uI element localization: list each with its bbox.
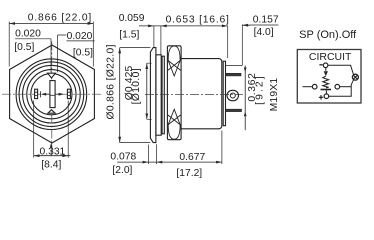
right centerline arrow: [55, 93, 61, 95]
terminal pin B bottom: [226, 109, 242, 111]
svg-text:0.020: 0.020: [15, 29, 41, 40]
down triangle above slot: [48, 73, 56, 78]
svg-text:M19X1: M19X1: [269, 78, 280, 112]
bezel inner circle 3: [23, 65, 81, 123]
side view washer: [162, 56, 164, 134]
actuator slot rectangle: [50, 81, 55, 108]
LED plus terminal circle: [324, 94, 329, 99]
side view flange: [150, 48, 156, 143]
dim 0.362 line: [244, 66, 246, 131]
svg-text:0.020: 0.020: [67, 31, 93, 42]
nut bottom chamfer cross lines: [167, 115, 181, 125]
switch right lead wire: [340, 86, 352, 88]
plus label: [319, 95, 323, 99]
dim 0.866 extension lines: [9, 22, 93, 67]
lamp circle: [352, 74, 358, 80]
wire bar to plus circle: [325, 90, 327, 94]
terminal oval with hole: [227, 90, 239, 100]
svg-text:0.331: 0.331: [40, 146, 66, 157]
terminal pin A top: [226, 73, 242, 76]
dim 0.157 extension line: [241, 25, 243, 66]
svg-text:SP (On).Off: SP (On).Off: [299, 29, 357, 41]
LED cathode bar: [321, 89, 332, 91]
nut top chamfer cross lines: [167, 61, 181, 71]
dim 0.653 right extension: [227, 26, 229, 58]
svg-text:CIRCUIT: CIRCUIT: [309, 51, 352, 63]
dim 0.078/0.677 line: [117, 161, 222, 163]
side view centerline: [145, 94, 243, 96]
svg-text:[Ø10.0]: [Ø10.0]: [131, 68, 142, 104]
LED minus terminal circle: [323, 63, 328, 68]
terminal thin line top: [226, 65, 243, 67]
side view body: [181, 59, 222, 129]
svg-text:0.866 [22.0]: 0.866 [22.0]: [28, 13, 92, 24]
up triangle below slot: [48, 110, 55, 113]
switch left lead: [303, 86, 313, 88]
switch left contact circle: [312, 84, 317, 89]
svg-text:[8.4]: [8.4]: [41, 160, 61, 171]
dim 0.157 leader: [242, 24, 278, 26]
minus label: [319, 64, 322, 66]
svg-text:[0.5]: [0.5]: [14, 42, 34, 53]
svg-text:Ø0.866 [Ø22.0]: Ø0.866 [Ø22.0]: [106, 44, 117, 119]
side view ring section: [156, 55, 161, 135]
button inner circle 5: [31, 74, 72, 115]
dim 0.331 line: [34, 155, 71, 157]
dim 0.078/0.677 extension lines: [148, 131, 222, 165]
svg-text:0.157: 0.157: [253, 15, 279, 26]
nut bottom facet lens: [168, 109, 180, 139]
rear plate: [223, 61, 225, 126]
bezel ring circle 2: [19, 62, 84, 127]
front view hex nut outline: [10, 45, 95, 143]
svg-text:0.078: 0.078: [110, 152, 136, 163]
dim 0.331 extension lines: [34, 101, 68, 158]
dim 0.059 extension lines: [154, 26, 161, 56]
horizontal centerline front view: [2, 93, 102, 95]
dim 0.059/0.653 shared line: [139, 25, 228, 27]
button circle 4: [27, 70, 76, 119]
wire bottom rail to lamp: [329, 80, 354, 96]
resistor R zigzag: [323, 76, 329, 88]
right LED window pill: [67, 89, 70, 98]
svg-text:[2.0]: [2.0]: [112, 165, 132, 176]
svg-text:[0.5]: [0.5]: [73, 48, 93, 59]
pointer at hex bottom vertex: [50, 145, 52, 156]
nut top facet lens: [168, 46, 180, 76]
svg-text:[4.0]: [4.0]: [254, 27, 274, 38]
svg-text:[1.5]: [1.5]: [119, 30, 139, 41]
vertical centerline front view: [51, 42, 53, 148]
lamp X: [353, 75, 357, 79]
switch right contact circle: [335, 84, 340, 89]
dim Ø0.866 line: [119, 48, 121, 143]
svg-text:0.059: 0.059: [119, 13, 145, 24]
LED arrow down: [325, 68, 327, 72]
circuit box: [297, 50, 361, 104]
svg-text:0.677: 0.677: [179, 152, 205, 163]
bezel outer circle: [16, 59, 87, 130]
leader 0.020 right: [58, 35, 95, 72]
wire top rail to lamp: [328, 65, 354, 74]
slot middle tick: [50, 94, 55, 96]
dim Ø0.425 line: [146, 63, 148, 119]
left centerline arrow: [44, 93, 50, 95]
left LED window pill: [35, 89, 38, 98]
svg-text:0.653 [16.6]: 0.653 [16.6]: [166, 14, 229, 25]
svg-text:[17.2]: [17.2]: [176, 168, 202, 179]
leader 0.020 left: [15, 39, 51, 73]
side view hex nut: [167, 46, 181, 140]
dim 0.866 [22.0] line: [9, 23, 93, 25]
